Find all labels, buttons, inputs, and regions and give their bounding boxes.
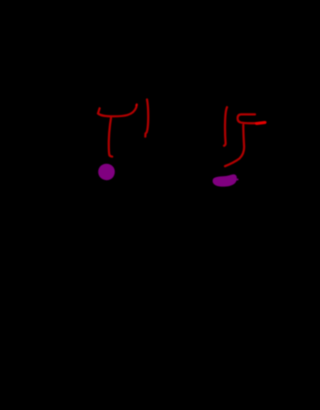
blob: right purple speck	[237, 179, 239, 181]
wire: left curve stroke	[98, 104, 137, 116]
wire: left stem stroke	[109, 118, 112, 157]
wire: left curve tip dot	[135, 104, 137, 106]
wire: left-glyph right vertical stroke	[145, 100, 148, 137]
wire: left stem hook bright spot	[109, 155, 111, 157]
wire: right-glyph vertical with tail stroke	[225, 125, 244, 166]
wire: right-glyph F arms stroke	[238, 114, 266, 123]
wire: right-glyph left vertical stroke	[224, 107, 227, 146]
wire: right-glyph F lower arm overdraw	[257, 123, 265, 124]
blob: left purple dot	[98, 164, 115, 180]
blob: right purple dot	[213, 174, 237, 186]
